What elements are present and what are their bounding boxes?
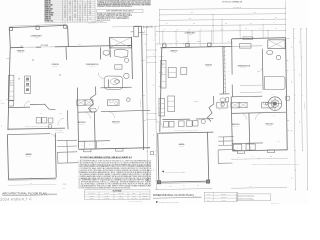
mud room angled wall [45, 104, 56, 110]
right plan west dimension string [153, 26, 157, 190]
left plan patio post 3 [64, 25, 67, 28]
right plan porch steps [218, 137, 233, 146]
architectural floor plan title [2, 192, 57, 196]
slider wall labels [20, 45, 48, 48]
right plan garage north wall [158, 132, 213, 133]
svg-text:2050 SH: 2050 SH [45, 1, 52, 3]
bath dimension extension [112, 26, 134, 28]
svg-text:24: 24 [74, 1, 76, 3]
svg-text:2024 ASBUILT C: 2024 ASBUILT C [0, 197, 32, 202]
hall west wall [66, 110, 69, 129]
svg-text:24: 24 [69, 3, 71, 5]
left plan slider wall [10, 45, 131, 47]
svg-text:2068 DR: 2068 DR [45, 19, 52, 21]
svg-text:16: 16 [89, 7, 91, 9]
right plan patio front wall with sliders [161, 46, 232, 47]
owners suite door swing [98, 73, 104, 79]
svg-text:16: 16 [84, 7, 86, 9]
east dimension string outer [291, 28, 296, 190]
bedroom south wall [79, 148, 150, 150]
bedroom closet wall [78, 140, 110, 143]
svg-text:16'0: 16'0 [187, 41, 189, 43]
east wall tie line [286, 38, 290, 40]
svg-text:12: 12 [64, 17, 66, 19]
hall bath toilet [127, 98, 131, 102]
owners bath tub [124, 73, 129, 78]
west margin window labels [1, 99, 5, 127]
right plan bedroom window boxes [237, 150, 274, 153]
inter-plan tie line top [142, 25, 160, 27]
svg-text:DIMENSIONAL FLOOR PLAN: DIMENSIONAL FLOOR PLAN [153, 193, 194, 197]
right plan garage label [179, 143, 185, 148]
right plan bedroom divider [248, 113, 251, 150]
svg-text:24: 24 [64, 7, 66, 9]
svg-text:11'0: 11'0 [275, 17, 278, 19]
svg-text:16: 16 [64, 13, 66, 15]
svg-text:3050 SH: 3050 SH [45, 3, 52, 5]
right plan corridor wall [232, 112, 286, 113]
owners bath shower with X brace [110, 37, 132, 48]
kitchen counter along west wall [8, 75, 14, 100]
svg-text:11'0 X 11'0: 11'0 X 11'0 [267, 125, 272, 127]
svg-text:16: 16 [74, 11, 76, 13]
left plan west exterior wall [8, 48, 10, 130]
right plan kitchen island [168, 96, 175, 112]
garage service door swing [51, 134, 56, 140]
svg-text:17'4 CLG: 17'4 CLG [172, 52, 177, 54]
closet labels [81, 144, 104, 146]
svg-text:16: 16 [74, 17, 76, 19]
ledge lines east of chimney [131, 31, 145, 34]
svg-text:26610 SGD: 26610 SGD [45, 5, 54, 7]
svg-text:10'0: 10'0 [176, 29, 178, 31]
svg-text:2868 EXT: 2868 EXT [45, 11, 52, 13]
svg-text:28'0: 28'0 [191, 12, 194, 14]
svg-text:16: 16 [69, 17, 71, 19]
covered patio label [30, 34, 42, 39]
hall wardrobe closet A with X [77, 100, 85, 106]
bedroom window boxes [84, 149, 123, 152]
floor plan notes heading [80, 156, 132, 159]
svg-text:392 SF: 392 SF [119, 195, 123, 197]
south dimension labels row [232, 156, 288, 160]
svg-text:2,536 SF: 2,536 SF [143, 195, 148, 197]
entry porch steps [57, 140, 77, 152]
right plan east wall window marks [285, 60, 289, 130]
closet divider 2 [95, 141, 97, 148]
svg-text:12: 12 [89, 3, 91, 5]
owners bath second vanity oval [103, 50, 110, 55]
west wall window marks [6, 59, 9, 100]
right plan garage south post west [157, 181, 160, 184]
owners wic room [104, 76, 123, 89]
svg-text:11'0 X 11'0: 11'0 X 11'0 [114, 123, 119, 125]
left plan north wall segment [134, 25, 142, 27]
svg-text:POST TYP: POST TYP [63, 184, 68, 186]
garage east wall [54, 133, 57, 177]
right plan foyer walls [208, 96, 214, 122]
svg-text:12: 12 [64, 11, 66, 13]
bedroom wing west wall [77, 88, 78, 149]
right plan closet wall [232, 142, 263, 145]
owners bath west wall [109, 37, 112, 57]
svg-text:16: 16 [74, 7, 76, 9]
great room label [17, 49, 25, 54]
scale bar [144, 24, 153, 28]
right plan hall bath room [262, 102, 274, 108]
svg-text:11'4: 11'4 [193, 23, 195, 25]
svg-text:16'0: 16'0 [169, 186, 171, 188]
bedroom door swings [84, 112, 115, 119]
east wall window bump [286, 96, 290, 100]
dimension tier 2 [159, 12, 286, 16]
svg-text:12'0: 12'0 [78, 44, 81, 46]
dimension tier 4 [159, 22, 286, 26]
dimension tier 1 overall width [159, 6, 286, 10]
svg-text:REVISION: REVISION [221, 193, 226, 195]
front door swing [92, 106, 99, 113]
suite north wall window box [243, 37, 253, 40]
left plan patio post 1 [9, 27, 12, 30]
svg-text:16'0 SLIDER: 16'0 SLIDER [41, 45, 49, 47]
owners bath sink oval [267, 51, 273, 55]
powder room walls [101, 79, 132, 88]
left plan east wall window marks [141, 60, 145, 120]
right plan kitchen upper cluster [168, 68, 187, 78]
dimensional plan bullet note [156, 201, 179, 204]
inter-plan rotated labels [144, 30, 146, 60]
owners tub [265, 77, 286, 90]
svg-text:16068 SGD: 16068 SGD [45, 9, 54, 11]
inter-plan tie lines [142, 34, 157, 119]
owners bath wall [261, 49, 264, 90]
svg-text:24: 24 [79, 21, 81, 23]
right plan garage south post east [206, 180, 209, 183]
dining room label [51, 64, 59, 68]
svg-text:13'0 X 14'8: 13'0 X 14'8 [241, 67, 246, 69]
south overall dimension line [231, 186, 286, 189]
bearing wall note [252, 162, 299, 165]
svg-text:UNDER ROOF: UNDER ROOF [142, 198, 149, 200]
svg-text:11'0 X 11'4: 11'0 X 11'4 [79, 124, 84, 126]
owners bath east wall [131, 37, 134, 79]
bedroom divider wall [93, 112, 96, 148]
water heater [48, 125, 52, 129]
dimension tier 5 [156, 28, 286, 32]
svg-text:ENTRY: ENTRY [132, 193, 136, 195]
hall wardrobe closet B with X [85, 100, 93, 105]
right plan owners suite north wall [232, 38, 286, 39]
hall bath room [108, 100, 120, 106]
owners bath west wall [99, 47, 101, 59]
kitchen island [25, 76, 31, 94]
garage attic access note [55, 129, 64, 134]
svg-text:8070 OHGD: 8070 OHGD [45, 15, 54, 17]
svg-text:13'4: 13'4 [249, 186, 251, 188]
right plan garage east wall [208, 132, 209, 182]
svg-text:9'0 CLG: 9'0 CLG [188, 34, 192, 36]
hall door swing [24, 101, 30, 107]
svg-text:21'4: 21'4 [254, 12, 257, 14]
svg-text:1,684 SF: 1,684 SF [89, 195, 94, 197]
right plan west wall counter upper [160, 61, 166, 89]
svg-text:MUD: MUD [59, 113, 62, 115]
right plan patio post 3 [208, 43, 211, 46]
right plan hall bath wall [232, 95, 262, 98]
owners bedroom label [238, 66, 251, 70]
svg-text:16'0: 16'0 [20, 46, 23, 48]
owners wic shelving [240, 85, 262, 92]
right plan covered patio label [184, 31, 196, 36]
dimension tier 6 at patio [156, 41, 232, 45]
svg-text:PERMIT SET: PERMIT SET [221, 196, 227, 198]
owners bath toilet [125, 58, 129, 62]
right plan shower with X brace [268, 40, 285, 49]
svg-text:2868 DR: 2868 DR [45, 7, 52, 9]
owners bath toilet [276, 55, 280, 59]
bedroom 3 label [112, 122, 120, 126]
owners bedroom label left plan [86, 64, 99, 68]
garage west wall [7, 135, 8, 180]
right plan wardrobe closet A with X [231, 102, 239, 108]
owners suite west wall [231, 46, 234, 96]
left plan east wall [142, 26, 144, 150]
laundry door swing [58, 118, 64, 125]
svg-text:LIN: LIN [118, 67, 120, 69]
svg-text:420 SF: 420 SF [105, 195, 109, 197]
inter-plan bedroom window labels [139, 164, 144, 167]
svg-text:SLIDER: SLIDER [197, 41, 201, 43]
ceiling fan symbol [268, 97, 282, 111]
right plan bath vanity [240, 44, 252, 49]
freezer [48, 118, 53, 123]
dimension tier 3 [159, 17, 286, 21]
right plan bedroom 3 label [266, 124, 274, 128]
right plan powder room [220, 94, 230, 106]
right plan patio post 1 [163, 44, 166, 47]
svg-text:11'0 X 11'4: 11'0 X 11'4 [233, 126, 238, 128]
svg-text:12: 12 [64, 15, 66, 17]
right plan garage south wall double [158, 181, 209, 183]
right plan patio post 2 [186, 43, 189, 46]
foyer angled walls [89, 87, 96, 113]
inter-plan square tick [150, 151, 153, 154]
svg-text:20'0 X 20'0: 20'0 X 20'0 [179, 146, 185, 148]
right plan living room label [205, 64, 213, 68]
right plan west wall [160, 47, 162, 131]
great room east wall [65, 47, 67, 60]
left plan overall height dimension [139, 26, 148, 181]
right plan bedroom south wall [232, 150, 287, 151]
powder room sink [114, 80, 119, 83]
hall wall south of kitchen [8, 104, 45, 107]
kitchen sink [10, 82, 12, 84]
right plan entry walls [218, 150, 235, 164]
bedroom 2 label [78, 122, 86, 126]
dimensional floor plan title [153, 193, 202, 198]
washer [36, 118, 41, 123]
garage north interior line [7, 133, 50, 136]
general notes paragraph [97, 0, 151, 8]
slider door lighter segments [24, 46, 56, 49]
right plan suite divider wall hatched [223, 46, 225, 94]
svg-text:24'8: 24'8 [189, 18, 192, 20]
svg-text:12: 12 [79, 7, 81, 9]
left plan side notes [63, 183, 68, 190]
svg-text:13'0 X 14'8: 13'0 X 14'8 [90, 66, 95, 68]
island appliance marks [26, 78, 29, 91]
right plan wardrobe closet B with X [239, 102, 247, 107]
right plan hall wall [163, 118, 214, 121]
bottom right note box [236, 194, 271, 202]
right plan entry door swing [156, 122, 163, 129]
left plan covered patio walls [9, 24, 68, 48]
svg-text:12: 12 [79, 19, 81, 21]
fan side circles [266, 103, 269, 106]
svg-text:12'0 CLG: 12'0 CLG [206, 66, 211, 68]
svg-text:9'0 CLG: 9'0 CLG [35, 37, 39, 39]
garage south dimension line [156, 185, 212, 190]
svg-text:16: 16 [74, 15, 76, 17]
svg-text:20'0 X 20'0: 20'0 X 20'0 [26, 156, 32, 158]
right plan closet boxes [233, 144, 255, 150]
corridor door jamb [90, 108, 97, 112]
right plan kitchen counter [159, 99, 165, 117]
chimney chase [134, 26, 139, 37]
garage south dimension left plan [8, 183, 57, 185]
garage north wall [8, 128, 65, 129]
entry alcove walls [58, 152, 79, 163]
dryer [42, 118, 47, 123]
svg-text:17'4 CLG: 17'4 CLG [18, 52, 23, 54]
owners suite door swings [240, 66, 263, 120]
window and door schedule table [45, 0, 96, 23]
right plan interior dimension labels [156, 106, 229, 110]
svg-text:10'0: 10'0 [225, 23, 228, 25]
linen closet [115, 65, 122, 69]
svg-text:OWNERS BEDROOM: OWNERS BEDROOM [86, 64, 99, 66]
east dimension string inner [298, 28, 303, 151]
right plan garage west wall [158, 133, 159, 181]
left plan patio post 2 [36, 26, 39, 29]
svg-text:16: 16 [89, 13, 91, 15]
garage south wall double line [8, 178, 56, 181]
right plan water heater [201, 120, 205, 124]
right plan north wall step [231, 39, 233, 46]
svg-text:12'0 CLG: 12'0 CLG [53, 66, 58, 68]
suite divider wall hatch ticks [223, 47, 226, 92]
svg-text:40 SF: 40 SF [133, 195, 136, 197]
owners bath vanity [115, 49, 129, 57]
right plan bedroom 2 label [232, 124, 240, 128]
floor plan notes paragraph [79, 159, 153, 189]
square footage table [85, 189, 151, 199]
east overall dimension string [303, 28, 308, 190]
dimension extension lines [160, 1, 286, 47]
right plan west wall window ticks [159, 56, 164, 86]
right plan washer dryer [164, 121, 199, 128]
garage slab note with bullet [163, 170, 186, 173]
range [8, 101, 13, 106]
right plan great room label [170, 50, 178, 55]
svg-text:KIT: KIT [18, 79, 20, 81]
right plan bedroom wing west wall [231, 97, 232, 151]
svg-text:STEP: STEP [63, 188, 66, 190]
right plan east wall [286, 38, 288, 150]
svg-text:12: 12 [69, 19, 71, 21]
great room floor outlet symbols [32, 59, 61, 76]
water heater note [88, 19, 107, 23]
right plan hall closets [217, 102, 227, 108]
approval note box [97, 9, 143, 21]
garage label [25, 153, 31, 158]
revision table [204, 192, 237, 201]
svg-text:3068 ENTRY: 3068 ENTRY [45, 13, 55, 15]
bedroom wing corridor wall [78, 110, 150, 112]
closet divider 1 [84, 141, 86, 148]
